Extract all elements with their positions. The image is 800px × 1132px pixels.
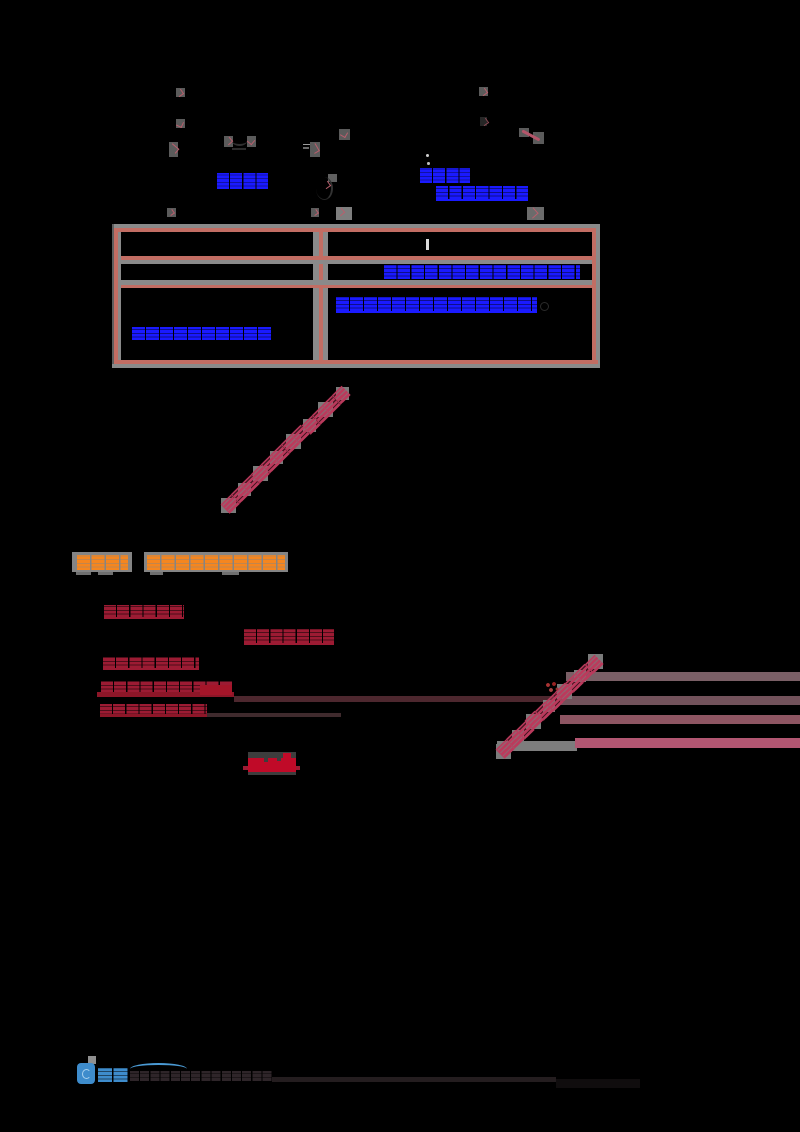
mark R gray square <box>328 174 337 182</box>
red item 4 <box>101 681 233 692</box>
item6 red tail left <box>243 766 248 770</box>
mark H red annotation <box>167 208 176 217</box>
mark R red tick <box>322 180 330 188</box>
red item 5 underline <box>100 714 207 718</box>
table inner gray left band <box>118 232 121 360</box>
white equals mark upper <box>303 144 310 146</box>
table outer gray bottom band <box>112 364 600 368</box>
heading gray tab d <box>222 572 239 576</box>
table divider salmon <box>319 232 323 360</box>
table divider gray right <box>323 232 328 360</box>
mark J red annotation <box>336 207 352 220</box>
band3 rose <box>575 738 800 748</box>
item6 red spike <box>283 753 291 759</box>
mark I red annotation <box>311 208 319 217</box>
table separator2 salmon <box>121 285 593 288</box>
footer darker line segment <box>556 1079 640 1088</box>
blue text row2 right cell <box>384 265 580 279</box>
mark R dark arc shape <box>316 177 333 200</box>
item6 red mass <box>248 758 296 772</box>
mark A red annotation <box>176 88 185 97</box>
watermark2 speckle cluster <box>545 682 559 694</box>
logo blue rounded square <box>77 1063 95 1084</box>
mark D2 red tick <box>247 136 256 147</box>
red item 4 underline <box>97 692 234 697</box>
red item 3 <box>103 657 199 670</box>
watermark2 gray step squares <box>496 744 511 759</box>
logo dark slogan text <box>130 1071 272 1081</box>
heading gray tab a <box>76 572 91 576</box>
table separator2 gray <box>121 280 593 285</box>
mark B red annotation <box>176 119 185 128</box>
dark V stroke between D1 D2 <box>232 136 247 146</box>
red item 5 <box>100 704 207 717</box>
blue text row3 left cell <box>132 327 272 340</box>
mark L dark annotation <box>480 117 487 126</box>
footer thin dark line <box>272 1077 556 1082</box>
table divider gray left <box>313 232 319 360</box>
red item 2 <box>244 629 334 645</box>
white equals mark lower <box>303 147 309 149</box>
logo blue characters <box>98 1068 129 1082</box>
mark D1 red tick <box>224 136 233 147</box>
mark C red annotation <box>169 142 178 157</box>
item6 red tail right <box>296 766 300 770</box>
item6 gray notch 2 <box>277 758 281 761</box>
blue text Q underlined <box>436 186 528 201</box>
table separator1 gray <box>121 260 593 264</box>
white cursor mark row1 <box>426 239 430 251</box>
mark M gray square 1 <box>519 128 529 138</box>
blue text P <box>420 168 471 183</box>
watermark1 rotated crimson characters <box>220 495 238 513</box>
band3 gray left segment <box>497 741 577 751</box>
table salmon left band <box>114 228 118 364</box>
heading gray band 1 <box>72 552 132 572</box>
logo light glyph <box>82 1069 91 1079</box>
orange heading text chapter <box>77 555 128 570</box>
table separator1 salmon <box>121 256 593 261</box>
orange heading text title <box>147 555 285 570</box>
table salmon top band <box>114 228 598 232</box>
heading gray tab c <box>150 572 163 575</box>
blue text row3 right cell underlined <box>336 297 537 313</box>
heading gray tab b <box>98 572 113 576</box>
dark period mark after row3 text <box>540 302 549 311</box>
blue text O <box>217 173 268 190</box>
heading gray band 2 <box>144 552 288 572</box>
item5 thin dark extension line <box>207 713 341 717</box>
item6 gray notch 1 <box>264 758 268 762</box>
mark M red diagonal squiggle <box>522 129 541 141</box>
logo blue swoosh arc <box>130 1063 187 1075</box>
watermark1 gray step squares <box>221 498 236 513</box>
item6 dark gray backing <box>248 752 296 775</box>
band1 right mauve <box>560 696 800 705</box>
mark G red annotation <box>339 129 350 140</box>
table outer gray right band <box>596 224 600 368</box>
table salmon bottom band <box>114 360 598 364</box>
white colon dot upper <box>426 154 429 157</box>
table salmon right band <box>592 228 596 364</box>
mark S red annotation <box>527 207 544 220</box>
long dark maroon band <box>234 696 554 702</box>
mark M gray square 2 <box>533 132 544 144</box>
red item 4 bright overlay <box>200 685 232 695</box>
watermark2 rotated crimson characters <box>495 740 513 758</box>
red item 1 <box>104 605 184 620</box>
mark F red annotation <box>310 142 320 157</box>
table outer gray top band <box>112 224 600 228</box>
band0 mauve gray <box>566 672 800 681</box>
band2 mauve <box>560 715 800 724</box>
faint dash below D <box>232 148 246 150</box>
logo gray cap <box>88 1056 96 1064</box>
white colon dot lower <box>427 162 430 166</box>
table outer gray left band <box>112 224 114 368</box>
mark K red annotation <box>479 87 488 96</box>
